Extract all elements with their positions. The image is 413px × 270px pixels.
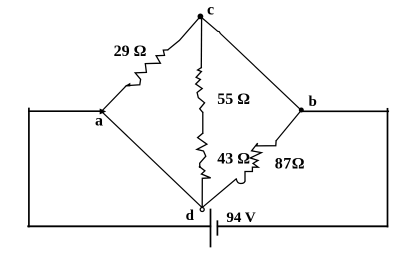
svg-text:a: a bbox=[95, 113, 103, 130]
svg-text:87Ω: 87Ω bbox=[275, 155, 305, 172]
svg-text:b: b bbox=[309, 94, 317, 110]
svg-text:c: c bbox=[207, 2, 214, 19]
svg-text:29 Ω: 29 Ω bbox=[114, 43, 147, 60]
svg-text:43 Ω: 43 Ω bbox=[217, 151, 250, 168]
svg-text:d: d bbox=[186, 208, 195, 224]
svg-text:55 Ω: 55 Ω bbox=[217, 91, 250, 108]
svg-text:94 V: 94 V bbox=[226, 210, 255, 226]
